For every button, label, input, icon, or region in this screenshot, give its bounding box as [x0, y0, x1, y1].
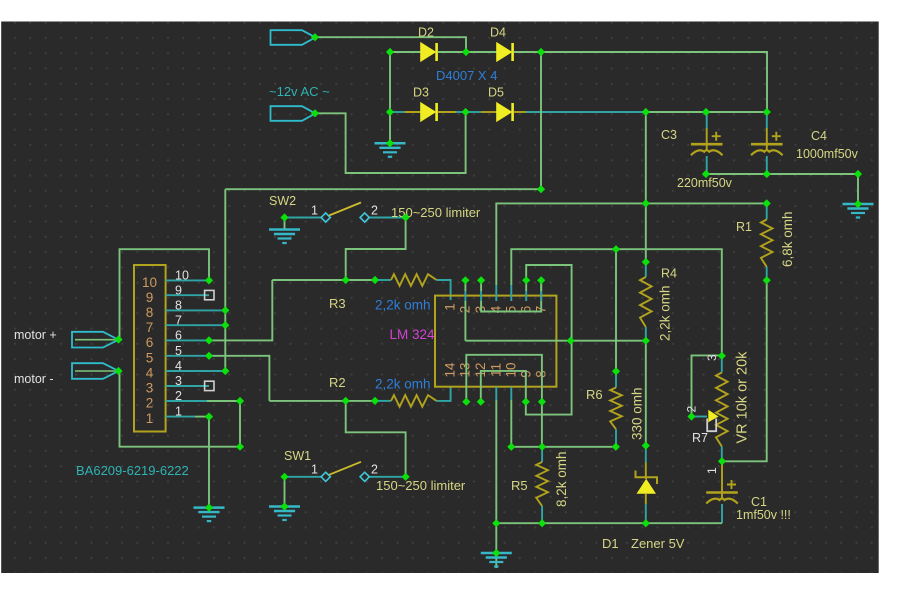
svg-text:6,8k omh: 6,8k omh — [780, 211, 795, 267]
junction dot node R4 top rail — [642, 199, 650, 207]
wire node to D5 — [466, 111, 497, 113]
svg-text:2: 2 — [685, 406, 699, 413]
label VR pin 2 — [685, 406, 699, 413]
label 150~250 limiter top — [391, 205, 481, 220]
junction dot node feedback junction — [567, 337, 575, 345]
svg-text:Zener 5V: Zener 5V — [631, 536, 685, 551]
junction dot node R3 left pin — [371, 276, 379, 284]
label LM 324 — [390, 327, 436, 342]
ground bridge center — [375, 112, 406, 157]
svg-text:R6: R6 — [586, 387, 603, 402]
svg-text:R4: R4 — [661, 267, 677, 281]
U1 top pin numbers 1-7 — [443, 303, 549, 313]
junction dot node cap gnd rail end — [854, 170, 862, 178]
svg-text:6: 6 — [146, 335, 154, 350]
junction dot node U2 pin1 — [205, 413, 213, 421]
junction dot node R6 branch — [612, 245, 620, 253]
wire pin6 to R3 rail corner — [209, 280, 272, 340]
junction dot node R4 bottom — [642, 337, 650, 345]
junction dot node D1 cathode — [642, 442, 650, 450]
label C1 — [751, 495, 767, 509]
wire node to D4 — [466, 51, 497, 53]
connector J2 ~12v AC bottom — [271, 106, 316, 121]
wire D2 to node — [438, 51, 466, 53]
U2 pin 9 stub with nc square — [166, 290, 214, 299]
svg-text:BA6209-6219-6222: BA6209-6219-6222 — [76, 463, 189, 478]
junction dot node D3 anode — [386, 108, 394, 116]
junction dot node R5 bottom — [538, 519, 546, 527]
junction dot node motor minus loop corner — [236, 443, 244, 451]
capacitor C4 — [751, 112, 783, 174]
svg-text:1: 1 — [311, 204, 318, 218]
svg-text:4: 4 — [146, 366, 154, 381]
switch SW1 — [285, 462, 406, 482]
U2 pin 10 stub — [166, 279, 209, 281]
svg-text:1: 1 — [443, 303, 458, 311]
svg-text:R3: R3 — [329, 296, 346, 311]
label R4 value 2,2k omh rotated — [658, 285, 673, 341]
U1 pin4 stub — [495, 285, 497, 301]
label VR pin 1 — [705, 467, 719, 474]
op-amp U1 LM324 box — [435, 296, 556, 387]
ground bottom center — [481, 523, 512, 568]
potentiometer R7 VR — [716, 356, 728, 462]
label SW1 pin 1 — [311, 463, 318, 477]
U1 pin7 stub — [540, 280, 542, 301]
junction dot node U2 gnd symbol — [205, 504, 213, 512]
label R3 value 2,2k omh — [375, 298, 431, 313]
wire R7 wiper to top terminal — [692, 355, 722, 416]
label Zener 5V — [631, 536, 685, 551]
diode D2 — [421, 43, 437, 61]
wire SW1 to R2 rail — [346, 401, 406, 477]
svg-text:1: 1 — [705, 467, 719, 474]
svg-text:3: 3 — [146, 381, 154, 396]
junction dot node U1 pin8 — [538, 398, 546, 406]
wire pin2 net to R4 bottom — [465, 340, 645, 342]
junction dot node R3 rail SW2 — [342, 276, 350, 284]
label SW1 — [284, 449, 311, 463]
junction dot node U2 pin5 — [205, 352, 213, 360]
U1 pin2 wire down to net — [464, 280, 466, 340]
label R7 — [692, 431, 708, 445]
diode D4 — [497, 43, 513, 61]
wire junction x571 down to pin9 route — [526, 341, 572, 415]
wire vertical from D4 output down — [540, 52, 542, 189]
junction dot node C4 bottom — [763, 170, 771, 178]
U1 pin11 wire down to ground rail — [495, 387, 497, 523]
svg-text:7: 7 — [146, 320, 154, 335]
ground SW2 — [269, 218, 300, 244]
junction dot node AC2 connector tip — [311, 109, 319, 117]
U1 pin3 wire and link to pin7 — [481, 280, 541, 311]
svg-text:8: 8 — [146, 305, 154, 320]
junction dot node U1 pin6 — [522, 276, 530, 284]
svg-text:2,2k omh: 2,2k omh — [375, 377, 431, 392]
R7 wiper arrow — [692, 410, 719, 431]
junction dot node V+ rectifier out — [537, 48, 545, 56]
svg-text:SW2: SW2 — [269, 194, 296, 208]
IC U2 BA6209 box — [134, 265, 166, 432]
junction dot node VR pin1 C1 top — [718, 457, 726, 465]
junction dot node R4 top pin — [642, 258, 650, 266]
label SW1 pin 2 — [371, 463, 378, 477]
junction dot node cap gnd symbol — [854, 200, 862, 208]
U1 pin6 over-route to right — [526, 265, 571, 341]
switch SW2 — [285, 203, 406, 223]
junction dot node U1 pin7 — [537, 276, 545, 284]
wire rail y189 to left — [225, 188, 541, 190]
wire conn2 loop to D3-D5 node — [315, 113, 466, 173]
junction dot node U2 pin10 — [205, 276, 213, 284]
label D4007 X 4 — [436, 68, 497, 83]
wire rail y203 pin4 to R1 — [496, 203, 766, 285]
junction dot node R6 bottom — [612, 443, 620, 451]
connector motor minus — [72, 363, 119, 379]
wire motor minus down and around to pin2 — [120, 371, 241, 447]
capacitor C3 — [691, 112, 723, 174]
U2 pin 4 stub — [166, 370, 226, 372]
svg-text:2: 2 — [371, 463, 378, 477]
U2 pin 7 stub — [166, 324, 226, 326]
svg-text:D2: D2 — [418, 26, 434, 40]
junction dot node SW2 pin1 — [280, 213, 288, 221]
junction dot node motor plus tip — [114, 335, 122, 343]
resistor R6 — [610, 249, 622, 447]
label D1 — [602, 536, 619, 551]
U2 outside pin numbers — [175, 269, 189, 419]
U2 pin 1 stub — [166, 416, 209, 418]
svg-text:D4: D4 — [490, 26, 506, 40]
svg-text:VR 10k or 20k: VR 10k or 20k — [735, 351, 751, 444]
junction dot node D2 anode — [386, 48, 394, 56]
wire node row y447 — [511, 446, 616, 448]
label motor plus — [14, 328, 57, 342]
junction dot node R1 top — [763, 199, 771, 207]
label 1000mf50v — [796, 147, 859, 161]
wire vertical x225 to IC pins — [224, 189, 226, 371]
junction dot node AC1 connector tip — [311, 33, 319, 41]
U2 pin 6 stub — [166, 339, 209, 341]
junction dot node AC2 bridge mid bottom — [462, 108, 470, 116]
junction dot node SW1 pin1 — [280, 473, 288, 481]
svg-text:motor -: motor - — [14, 372, 54, 386]
label R2 value 2,2k omh — [375, 377, 431, 392]
resistor R2 — [391, 395, 437, 407]
junction dot node U2 pin4 — [221, 367, 229, 375]
junction dot node SW2 pin2 wire — [402, 213, 410, 221]
svg-text:220mf50v: 220mf50v — [677, 176, 733, 190]
svg-text:1: 1 — [311, 463, 318, 477]
label motor minus — [14, 372, 54, 386]
wire conn1 to D2-D4 node — [315, 37, 466, 52]
svg-text:D1: D1 — [602, 536, 619, 551]
wire D2 row left segment — [390, 51, 421, 53]
svg-text:2: 2 — [146, 396, 154, 411]
wire vertical D2row to D3row — [389, 52, 391, 112]
wire pin5 to R2 rail corner — [209, 356, 269, 401]
label D3 — [413, 86, 429, 100]
svg-text:SW1: SW1 — [284, 449, 311, 463]
label C3 — [661, 128, 677, 142]
junction dot node R6 top pin — [612, 367, 620, 375]
junction dot node D1 anode — [642, 519, 650, 527]
label ~12v AC ~ — [269, 84, 330, 99]
U1 bottom pin numbers 14-8 — [443, 362, 549, 378]
wire R3 to LM324 pin1 — [437, 280, 451, 300]
junction dot node R2 left pin — [371, 397, 379, 405]
junction dot node C3 top — [702, 108, 710, 116]
wire C3 C4 bottom rail — [706, 173, 858, 175]
diode D3 — [421, 103, 437, 121]
wire R2 rail — [269, 400, 391, 402]
U2 pin 2 stub — [166, 400, 240, 402]
junction dot node R5 top — [538, 443, 546, 451]
junction dot node U1 pin2 — [461, 276, 469, 284]
capacitor C1 — [706, 461, 738, 523]
label D4 — [490, 26, 506, 40]
svg-text:motor +: motor + — [14, 328, 57, 342]
label R5 value 8,2k omh rotated — [554, 451, 569, 507]
junction dot node U2 pin2 — [236, 397, 244, 405]
wire D3 row left stub — [390, 111, 421, 113]
svg-text:~12v AC ~: ~12v AC ~ — [269, 84, 330, 99]
ground right of C4 — [843, 174, 874, 218]
wire R1 bottom down to VR node — [722, 280, 767, 461]
label C4 — [811, 129, 827, 143]
label R1 — [736, 220, 752, 234]
U1 pin10 wire down — [510, 387, 512, 447]
ground SW1 — [269, 477, 300, 520]
connector J1 ~12v AC top — [271, 30, 316, 45]
zener diode D1 — [636, 341, 658, 524]
label 1mf50v !!! — [736, 508, 791, 522]
svg-text:D3: D3 — [413, 86, 429, 100]
diode D5 — [497, 103, 513, 121]
svg-text:330 omh: 330 omh — [630, 387, 645, 440]
label VR pin 3 — [705, 354, 719, 361]
svg-text:C3: C3 — [661, 128, 677, 142]
svg-text:13: 13 — [458, 362, 473, 377]
junction dot node V+ rail to R4 — [642, 108, 650, 116]
junction dot node U2 pin6 — [205, 336, 213, 344]
svg-text:D4007 X 4: D4007 X 4 — [436, 68, 497, 83]
svg-text:3: 3 — [705, 354, 719, 361]
svg-text:R5: R5 — [511, 478, 528, 493]
junction dot node VR pin3 — [718, 352, 726, 360]
junction dot node gnd rail left — [492, 519, 500, 527]
svg-text:C4: C4 — [811, 129, 827, 143]
U2 inside pin numbers — [142, 275, 157, 426]
junction dot node U1 pin9 — [522, 398, 530, 406]
svg-text:D5: D5 — [488, 86, 504, 100]
wire D5 output to C3 C4 rail — [514, 111, 767, 113]
junction dot node SW1 pin2 wire — [402, 473, 410, 481]
svg-text:LM 324: LM 324 — [390, 327, 436, 342]
svg-text:R2: R2 — [329, 375, 346, 390]
label R6 value 330 omh rotated — [630, 387, 645, 440]
label BA6209-6219-6222 — [76, 463, 189, 478]
junction dot node motor minus tip — [114, 367, 122, 375]
resistor R5 — [536, 447, 548, 523]
svg-text:1000mf50v: 1000mf50v — [796, 147, 859, 161]
U1 pin8 wire down to node — [541, 402, 543, 447]
svg-text:2,2k omh: 2,2k omh — [658, 285, 673, 341]
wire R3 rail — [272, 279, 391, 281]
U1 pin9 interior link to pin12 — [481, 371, 526, 402]
label R3 — [329, 296, 346, 311]
wire R2 to LM324 pin14 — [437, 387, 451, 401]
junction dot node rail189 to rectifier — [537, 185, 545, 193]
label D5 — [488, 86, 504, 100]
svg-text:R7: R7 — [692, 431, 708, 445]
svg-text:2,2k omh: 2,2k omh — [375, 298, 431, 313]
U2 pin 3 stub with nc square — [166, 381, 214, 390]
label SW2 pin 2 — [371, 204, 378, 218]
junction dot node U1 pin10 row — [507, 443, 515, 451]
wire SW2 to R3 rail — [346, 218, 406, 281]
label VR 10k or 20k rotated — [735, 351, 751, 444]
svg-text:10: 10 — [142, 275, 157, 290]
label 220mf50v — [677, 176, 733, 190]
junction dot node U1 pin13 — [462, 398, 470, 406]
resistor R4 — [640, 112, 652, 341]
label SW2 pin 1 — [311, 204, 318, 218]
resistor R1 — [761, 203, 773, 280]
resistor R3 — [391, 274, 437, 286]
wire pin1 to ground — [194, 417, 225, 521]
wire pin10 up and around left — [120, 249, 210, 340]
junction dot node C4 top — [763, 108, 771, 116]
svg-text:2: 2 — [371, 204, 378, 218]
label 150~250 limiter bottom — [376, 478, 466, 493]
junction dot node SW1 gnd symbol — [280, 502, 288, 510]
label R5 — [511, 478, 528, 493]
junction dot node VR pin2 wiper — [687, 412, 695, 420]
svg-text:1mf50v !!!: 1mf50v !!! — [736, 508, 791, 522]
label R6 — [586, 387, 603, 402]
junction dot node U1 pin3 — [477, 276, 485, 284]
label R1 value 6,8k omh — [780, 211, 795, 267]
wire bottom ground rail — [496, 522, 722, 524]
junction dot node U2 pin8 — [221, 306, 229, 314]
connector motor plus — [72, 332, 119, 348]
junction dot node C3 bottom — [702, 170, 710, 178]
svg-text:9: 9 — [146, 290, 154, 305]
junction dot node R1 bottom pin — [763, 276, 771, 284]
U1 pin8 interior link to pin13 — [466, 355, 542, 402]
svg-text:5: 5 — [146, 351, 154, 366]
svg-text:150~250 limiter: 150~250 limiter — [376, 478, 466, 493]
junction dot node AC1 bridge mid top — [462, 48, 470, 56]
U2 pin 8 stub — [166, 309, 226, 311]
U1 pin5 stub — [510, 285, 512, 301]
junction dot node bridge ground — [386, 139, 394, 147]
label D2 — [418, 26, 434, 40]
junction dot node U1 pin12 — [477, 398, 485, 406]
U2 pin 5 stub — [166, 355, 209, 357]
label R4 — [661, 267, 677, 281]
svg-text:1: 1 — [146, 411, 154, 426]
label R2 — [329, 375, 346, 390]
svg-text:14: 14 — [443, 362, 458, 378]
svg-text:C1: C1 — [751, 495, 767, 509]
junction dot node U2 pin7 — [221, 321, 229, 329]
label SW2 — [269, 194, 296, 208]
svg-text:8,2k omh: 8,2k omh — [554, 451, 569, 507]
junction dot node R2 rail SW1 — [342, 397, 350, 405]
svg-text:R1: R1 — [736, 220, 752, 234]
wire D4 output to right then down to C4 — [514, 52, 767, 112]
wire rail y249 pin5 to VR — [511, 249, 722, 356]
wire D3 to node — [438, 111, 466, 113]
